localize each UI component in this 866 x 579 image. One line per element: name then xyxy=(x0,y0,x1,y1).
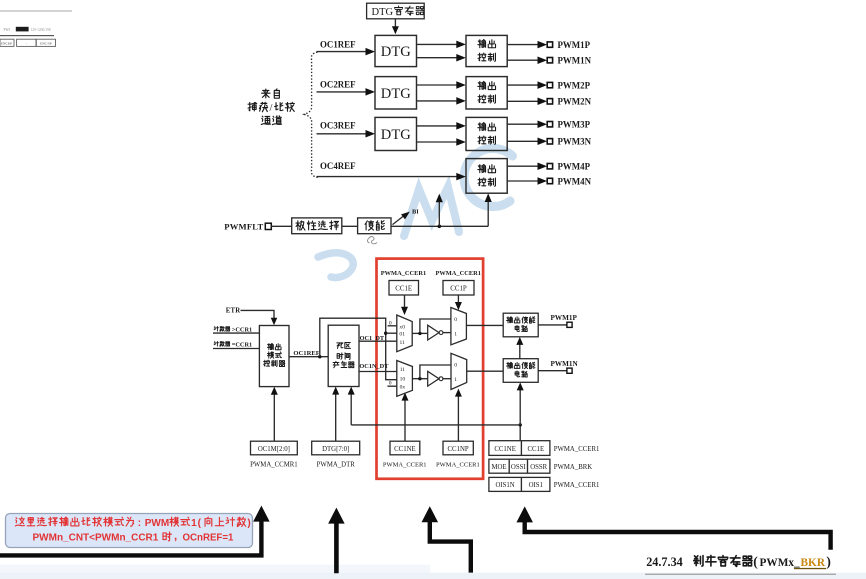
svg-text:PWMA_DTR: PWMA_DTR xyxy=(317,461,356,468)
svg-text:=CCR1: =CCR1 xyxy=(232,341,252,348)
svg-text:,: , xyxy=(174,531,177,543)
svg-text:OC2REF: OC2REF xyxy=(320,79,356,89)
svg-text:ENCKP: ENCKP xyxy=(1,42,12,46)
svg-text:OCnREF=1: OCnREF=1 xyxy=(183,533,234,544)
svg-text:OC3REF: OC3REF xyxy=(320,121,356,131)
svg-text:0: 0 xyxy=(454,362,457,368)
svg-text::: : xyxy=(138,518,141,529)
svg-text:(: ( xyxy=(753,554,758,569)
svg-text:CC1P: CC1P xyxy=(450,286,467,293)
svg-text:PWM1N: PWM1N xyxy=(558,56,592,66)
svg-text:10: 10 xyxy=(400,377,406,383)
svg-text:OC1N_DT: OC1N_DT xyxy=(359,363,389,370)
svg-text:129-1206/198: 129-1206/198 xyxy=(31,28,51,32)
svg-text:11: 11 xyxy=(400,340,406,346)
svg-text:OSSI: OSSI xyxy=(511,464,526,471)
svg-text:PWMA_CCER1: PWMA_CCER1 xyxy=(436,461,480,468)
svg-text:CC1NE: CC1NE xyxy=(394,446,416,453)
svg-text:PWM3P: PWM3P xyxy=(558,120,591,130)
svg-text:DTG: DTG xyxy=(381,44,411,60)
svg-text:PWMx_: PWMx_ xyxy=(760,557,801,569)
svg-text:/: / xyxy=(270,103,273,114)
svg-text:PWMA_CCER1: PWMA_CCER1 xyxy=(381,270,426,277)
svg-text:OC1REF: OC1REF xyxy=(320,39,356,49)
svg-text:DTG: DTG xyxy=(381,127,411,143)
svg-text:PWMn_CNT<PWMn_CCR1: PWMn_CNT<PWMn_CCR1 xyxy=(33,533,159,544)
svg-text:PWMA_CCER1: PWMA_CCER1 xyxy=(554,446,600,453)
svg-text:PWMA_BRK: PWMA_BRK xyxy=(554,464,593,471)
svg-text:PWM2N: PWM2N xyxy=(558,97,592,107)
svg-text:CC1E: CC1E xyxy=(395,286,412,293)
svg-text:PWMA_CCER1: PWMA_CCER1 xyxy=(383,461,427,468)
svg-text:-: - xyxy=(26,42,27,46)
svg-text:24.7.34: 24.7.34 xyxy=(646,555,683,569)
svg-text:PWM1N: PWM1N xyxy=(551,360,579,368)
svg-text:MOE: MOE xyxy=(491,464,506,471)
svg-text:PWM: PWM xyxy=(145,518,169,529)
svg-text:DTG[7:0]: DTG[7:0] xyxy=(322,446,349,453)
svg-text:): ) xyxy=(247,518,250,529)
svg-text:PWM1P: PWM1P xyxy=(558,40,591,50)
svg-text:DTG: DTG xyxy=(372,7,394,18)
svg-text:OC4REF: OC4REF xyxy=(320,161,356,171)
svg-text:PWMA_CCMR1: PWMA_CCMR1 xyxy=(250,461,298,468)
svg-text:PWM3N: PWM3N xyxy=(558,137,592,147)
svg-text:PWM2P: PWM2P xyxy=(558,80,591,90)
svg-text:BKR: BKR xyxy=(801,557,826,569)
svg-text:CC1NP: CC1NP xyxy=(448,446,469,453)
svg-text:CC1E: CC1E xyxy=(527,446,544,453)
svg-text:PWMA_CCER1: PWMA_CCER1 xyxy=(554,482,600,489)
svg-text:): ) xyxy=(826,554,831,569)
svg-text:PWM1P: PWM1P xyxy=(551,314,578,322)
svg-text:x0: x0 xyxy=(399,325,405,331)
svg-text:ENC/SP: ENC/SP xyxy=(40,42,52,46)
svg-text:1: 1 xyxy=(454,377,457,383)
svg-text:PWMA_CCER1: PWMA_CCER1 xyxy=(435,270,480,277)
svg-text:>CCR1: >CCR1 xyxy=(232,326,252,333)
svg-text:PWI: PWI xyxy=(4,28,11,32)
svg-text:PWM4P: PWM4P xyxy=(558,162,591,172)
svg-text:CC1NE: CC1NE xyxy=(494,446,516,453)
svg-text:DTG: DTG xyxy=(381,86,411,102)
svg-text:11: 11 xyxy=(400,367,406,373)
svg-text:0x: 0x xyxy=(400,385,406,391)
svg-text:0: 0 xyxy=(454,317,457,323)
svg-text:OIS1N: OIS1N xyxy=(495,482,514,489)
svg-text:BI: BI xyxy=(412,209,419,216)
svg-text:1: 1 xyxy=(454,332,457,338)
svg-text:OC1M[2:0]: OC1M[2:0] xyxy=(258,446,290,453)
svg-text:01: 01 xyxy=(399,332,405,338)
svg-text:PWM4N: PWM4N xyxy=(558,176,592,186)
svg-text:1: 1 xyxy=(191,518,197,529)
svg-text:OIS1: OIS1 xyxy=(529,482,543,489)
svg-text:PWMFLT: PWMFLT xyxy=(224,222,263,232)
svg-text:ETR: ETR xyxy=(226,308,241,315)
svg-text:OSSR: OSSR xyxy=(530,464,547,471)
